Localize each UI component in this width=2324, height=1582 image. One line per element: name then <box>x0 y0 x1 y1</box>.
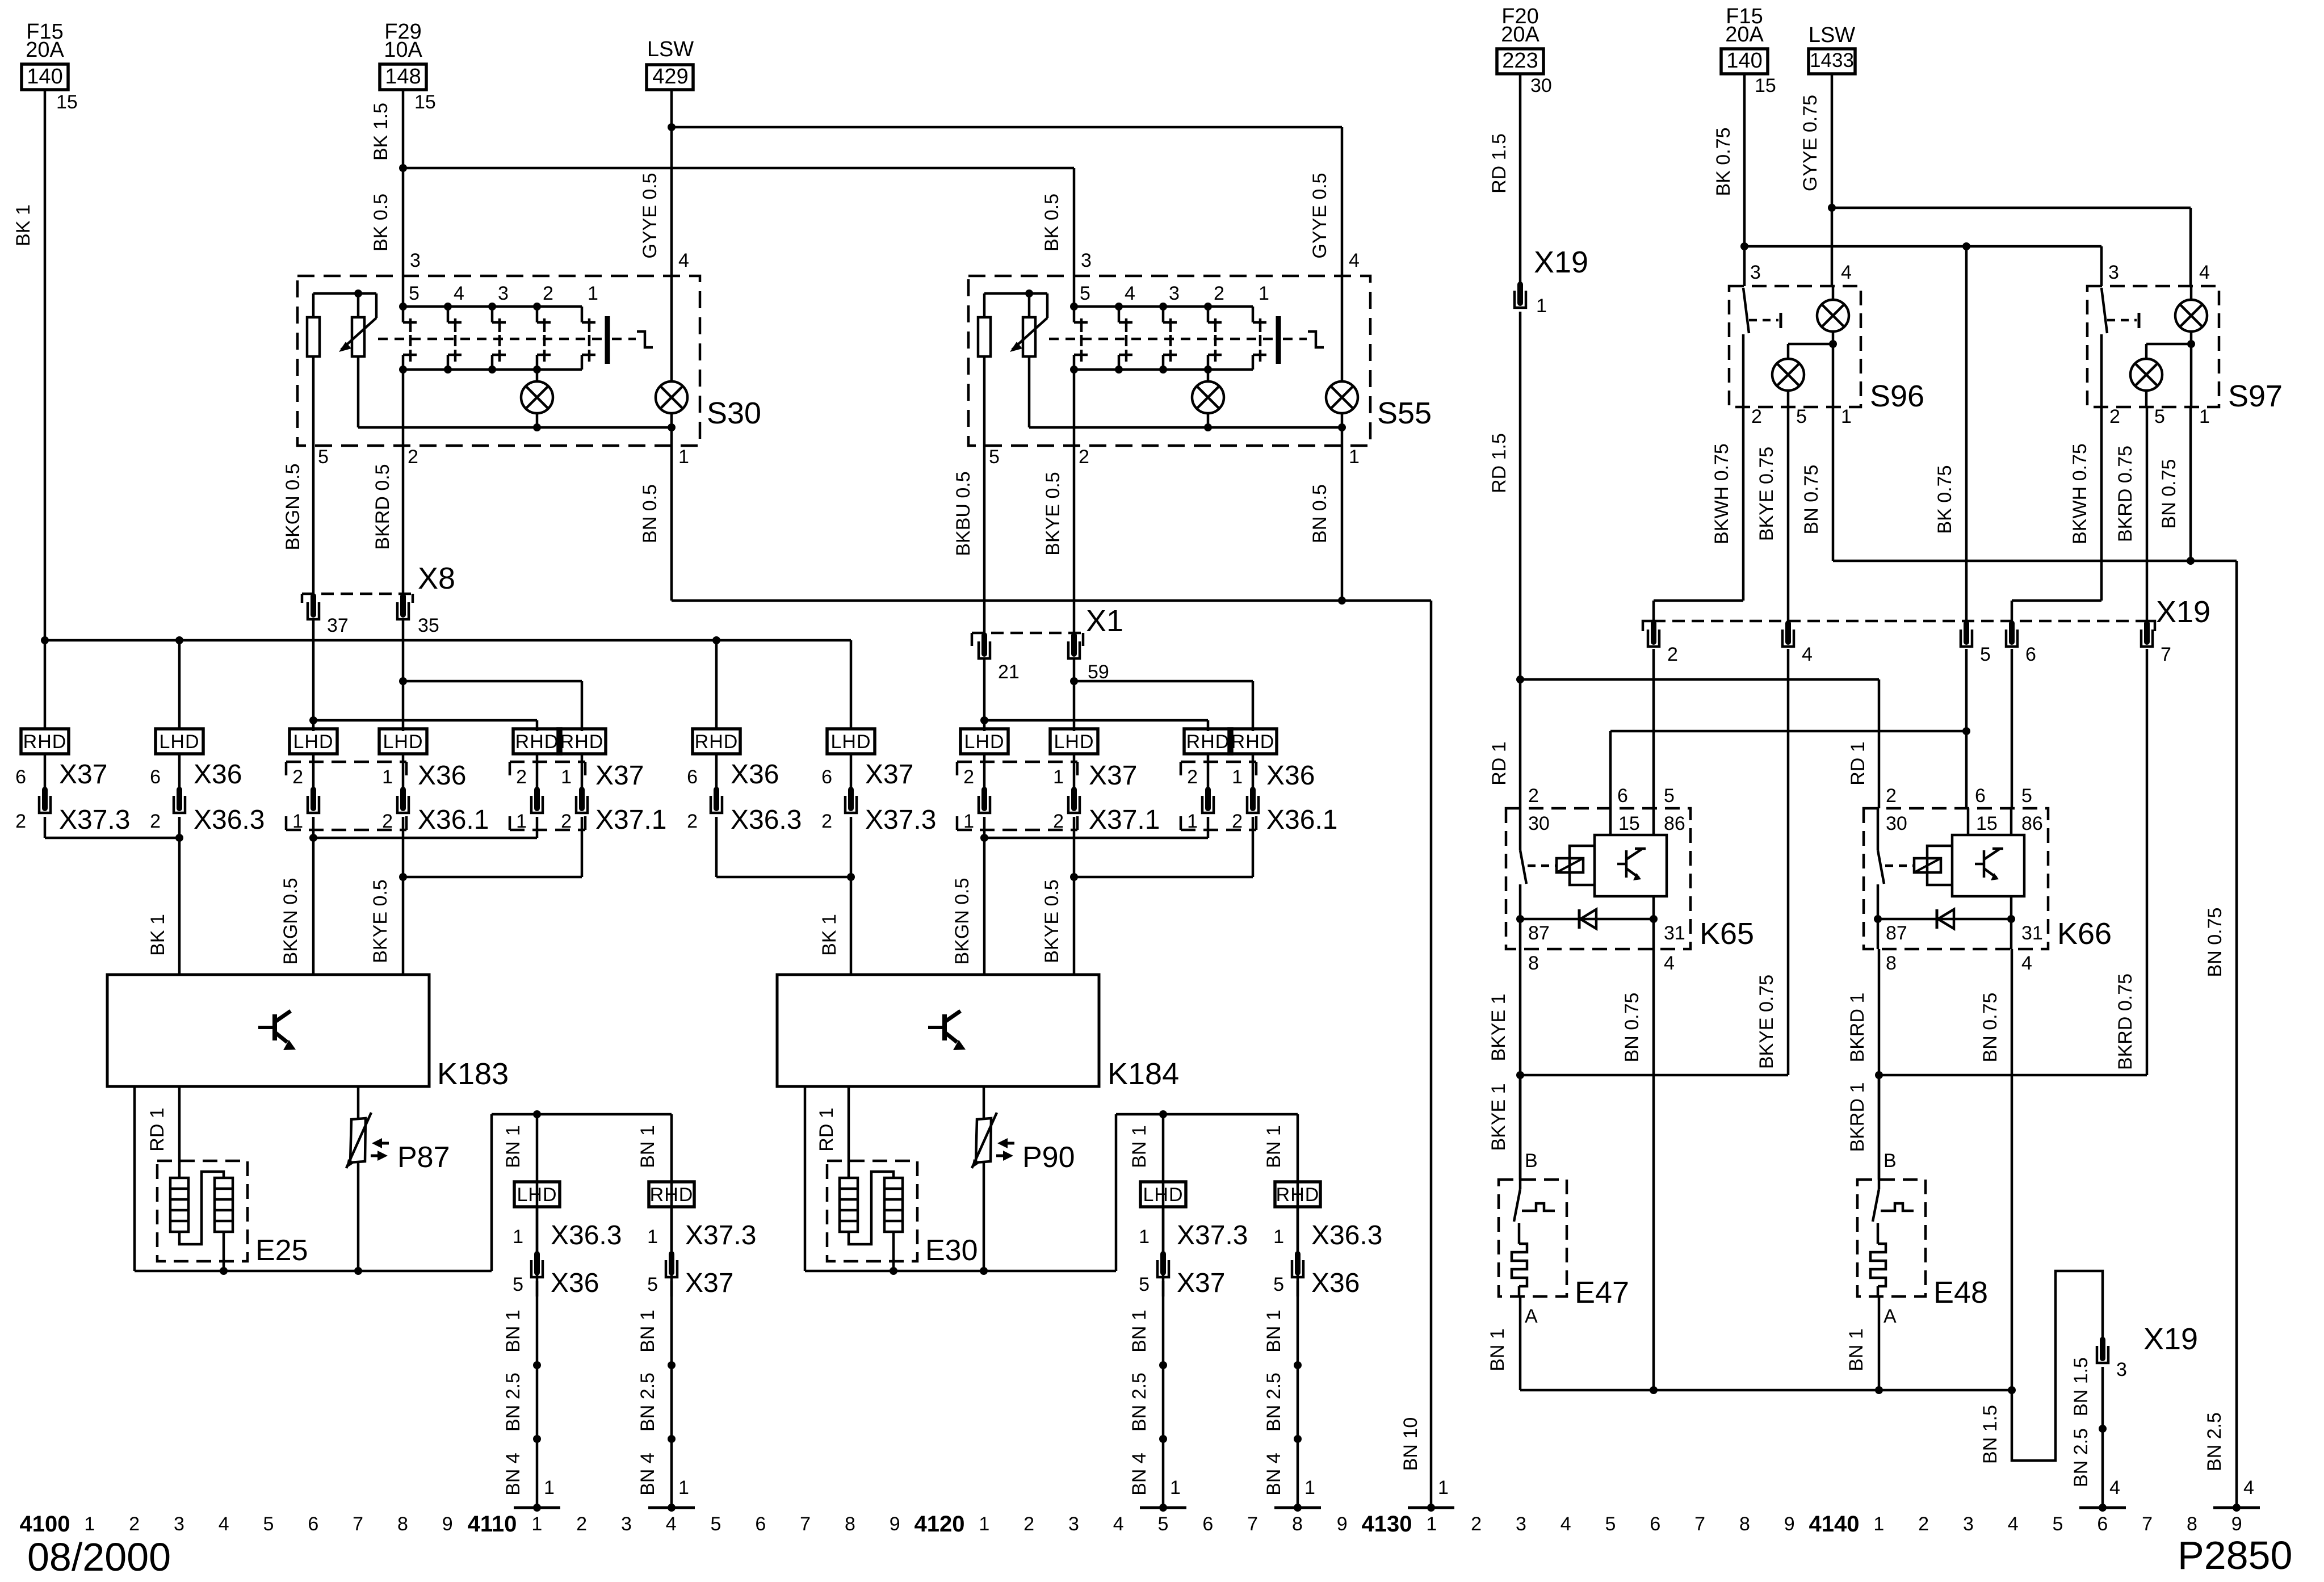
K65 switch contact 30-87 <box>1519 808 1522 850</box>
ground point X36 <box>514 1507 560 1509</box>
svg-text:3: 3 <box>1963 1513 1974 1535</box>
ground point X37 <box>648 1507 695 1509</box>
svg-text:RHD: RHD <box>560 731 604 753</box>
svg-text:1: 1 <box>1873 1513 1884 1535</box>
svg-text:20A: 20A <box>26 38 64 62</box>
svg-text:BN 1: BN 1 <box>502 1310 524 1353</box>
ground connector X36.3/X36 (LHD) <box>514 1182 560 1207</box>
wire BK 1.5 from F29 <box>402 90 405 168</box>
svg-text:1: 1 <box>1232 766 1243 788</box>
svg-text:BK 1.5: BK 1.5 <box>370 103 392 161</box>
svg-text:X36: X36 <box>1311 1268 1360 1298</box>
S96 indicator lamp A <box>1832 286 1835 300</box>
svg-text:BK 0.75: BK 0.75 <box>1934 465 1956 534</box>
svg-text:3: 3 <box>498 283 509 304</box>
connector X37 RHD (single, from F15) <box>21 729 69 754</box>
svg-text:BN 2.5: BN 2.5 <box>637 1373 658 1432</box>
svg-text:BN 1: BN 1 <box>1263 1310 1285 1353</box>
svg-text:LHD: LHD <box>830 731 871 753</box>
svg-text:6: 6 <box>2097 1513 2108 1535</box>
svg-text:X37: X37 <box>1177 1268 1225 1298</box>
svg-text:RHD: RHD <box>23 731 67 753</box>
svg-text:2: 2 <box>561 811 572 832</box>
connector pair X36/X36.1 LHD (BKGN, BKRD wires) <box>286 761 406 763</box>
svg-text:1: 1 <box>1187 811 1198 832</box>
svg-text:1: 1 <box>292 811 303 832</box>
svg-text:148: 148 <box>385 65 421 89</box>
svg-text:1: 1 <box>382 766 393 788</box>
wire BKRD 0.5 from S30 pin 2 <box>402 446 405 596</box>
svg-text:2: 2 <box>1471 1513 1482 1535</box>
wire BKRD 1 from K66 pin 8 <box>1878 949 1881 1180</box>
svg-text:BN 0.5: BN 0.5 <box>639 484 661 543</box>
svg-text:BN 0.5: BN 0.5 <box>1309 484 1331 543</box>
svg-text:BN 2.5: BN 2.5 <box>2070 1428 2092 1487</box>
svg-text:RHD: RHD <box>515 731 559 753</box>
svg-text:9: 9 <box>1784 1513 1795 1535</box>
svg-text:4140: 4140 <box>1809 1512 1860 1537</box>
svg-text:BN 4: BN 4 <box>1129 1453 1150 1496</box>
svg-text:S96: S96 <box>1870 379 1924 413</box>
svg-text:A: A <box>1525 1306 1538 1327</box>
wire GYYE 0.75 from LSW <box>1831 74 1834 208</box>
svg-text:31: 31 <box>1664 922 1685 944</box>
wire BN 0.5 from S55 pin 1 <box>1341 446 1344 601</box>
svg-text:BN 4: BN 4 <box>637 1453 658 1496</box>
svg-text:BKWH 0.75: BKWH 0.75 <box>1711 443 1732 544</box>
svg-text:S30: S30 <box>707 396 761 430</box>
svg-text:3: 3 <box>1068 1513 1079 1535</box>
svg-text:5: 5 <box>1139 1274 1150 1295</box>
S30 illumination resistor (fixed) <box>312 293 315 317</box>
X19 pin 7 <box>2144 623 2150 642</box>
svg-text:6: 6 <box>308 1513 318 1535</box>
wire BN 0.75 from S96 pin 1 <box>1832 407 1835 561</box>
svg-text:E47: E47 <box>1575 1275 1629 1310</box>
svg-text:4: 4 <box>1664 952 1675 974</box>
switch S97 enclosure <box>2087 286 2219 407</box>
svg-text:59: 59 <box>1088 661 1109 683</box>
X8 pin 35 <box>400 596 406 615</box>
svg-text:4: 4 <box>1349 250 1360 271</box>
wire from K184 to P90 <box>983 1086 985 1271</box>
svg-text:2: 2 <box>1023 1513 1034 1535</box>
E47 thermal switch <box>1519 1075 1522 1180</box>
switch S96 enclosure <box>1729 286 1861 407</box>
svg-text:6: 6 <box>687 766 698 788</box>
svg-text:X36.1: X36.1 <box>418 805 489 835</box>
svg-text:BN 0.75: BN 0.75 <box>2204 908 2226 977</box>
X19 pin 5 <box>1964 623 1969 642</box>
svg-text:BN 1: BN 1 <box>1487 1328 1508 1371</box>
svg-text:1: 1 <box>1304 1477 1315 1499</box>
wire BK 0.5 to S30 pin 3 <box>402 168 405 276</box>
GYYE split to S96 and S97 pin 4 <box>1828 204 1836 212</box>
svg-text:P87: P87 <box>397 1141 450 1174</box>
S55 rotary contact bank <box>1074 305 1253 308</box>
ground connector X37.3/X37 (LHD) <box>1140 1182 1186 1207</box>
wire BKGN 0.5 to K183 <box>312 838 315 975</box>
svg-text:4: 4 <box>2021 952 2032 974</box>
node BKGN loop A <box>309 716 317 724</box>
svg-text:X36: X36 <box>731 759 779 790</box>
svg-text:X36.3: X36.3 <box>1311 1220 1382 1251</box>
svg-text:3: 3 <box>1750 262 1761 283</box>
K66 coil <box>1885 865 1914 867</box>
wire RD 1 node to relays <box>1516 675 1524 683</box>
heated washer jet E47 enclosure <box>1499 1180 1567 1296</box>
svg-text:E48: E48 <box>1933 1275 1988 1310</box>
svg-text:7: 7 <box>353 1513 363 1535</box>
wire RD 1.5 from F20 <box>1519 74 1522 284</box>
S55 GYYE internal wire to lamp <box>1341 276 1344 381</box>
svg-text:30: 30 <box>1528 813 1550 834</box>
supply bus from F15 to connector row <box>45 639 851 642</box>
svg-text:2: 2 <box>15 811 26 832</box>
svg-text:BN 0.75: BN 0.75 <box>2158 459 2180 529</box>
svg-text:4: 4 <box>1802 644 1813 665</box>
svg-text:X37: X37 <box>59 759 107 790</box>
K183 internal transistor <box>258 1026 275 1029</box>
svg-text:6: 6 <box>821 766 832 788</box>
svg-text:BKYE 0.5: BKYE 0.5 <box>1042 472 1064 555</box>
svg-text:5: 5 <box>2021 785 2032 807</box>
svg-text:BKYE 0.5: BKYE 0.5 <box>1041 879 1063 963</box>
S97 indicator lamp B <box>2146 343 2191 346</box>
E48 heater element <box>1877 1223 1880 1244</box>
svg-text:1: 1 <box>678 1477 689 1499</box>
wire BK 1 to K183 <box>178 838 181 975</box>
svg-text:LHD: LHD <box>1054 731 1094 753</box>
wire BKYE 1 from K65 pin 8 <box>1519 949 1522 1180</box>
wire RD 1 from K183 to E25 <box>178 1086 181 1178</box>
svg-text:1: 1 <box>1053 766 1064 788</box>
svg-text:3: 3 <box>2108 262 2119 283</box>
S55 dimmer rheostat (variable) <box>984 292 1047 295</box>
svg-text:P2850: P2850 <box>2178 1533 2292 1577</box>
svg-text:B: B <box>1525 1150 1538 1172</box>
svg-text:5: 5 <box>409 283 420 304</box>
svg-text:BN 2.5: BN 2.5 <box>1263 1373 1285 1432</box>
ground point BN 10 <box>1408 1507 1454 1509</box>
svg-text:87: 87 <box>1528 922 1550 944</box>
svg-text:X36: X36 <box>418 761 466 791</box>
svg-text:2: 2 <box>2109 406 2120 427</box>
svg-text:4: 4 <box>454 283 464 304</box>
E48 thermal switch <box>1878 1075 1881 1180</box>
K66 transistor driver <box>1952 835 2024 896</box>
svg-text:3: 3 <box>174 1513 184 1535</box>
svg-text:S97: S97 <box>2228 379 2283 413</box>
svg-text:RHD: RHD <box>1186 731 1230 753</box>
svg-text:30: 30 <box>1530 75 1552 96</box>
svg-text:1: 1 <box>1349 446 1360 468</box>
node: F29 feed split to S30 pin3 and S55 pin3 <box>399 164 407 172</box>
wire RD 1 from K184 to E30 <box>848 1086 850 1178</box>
svg-text:1: 1 <box>544 1477 555 1499</box>
ground point right BN <box>2213 1507 2260 1509</box>
wire BKBU 0.5 from S55 pin 5 <box>983 446 986 635</box>
connector X36 LHD (single) <box>156 729 203 754</box>
wire BK 0.75 from F15 <box>1743 74 1746 246</box>
svg-text:4: 4 <box>219 1513 229 1535</box>
svg-text:BKYE 0.75: BKYE 0.75 <box>1756 447 1777 541</box>
svg-text:8: 8 <box>1292 1513 1303 1535</box>
svg-text:7: 7 <box>1694 1513 1705 1535</box>
K66 suppression diode <box>1878 918 2011 921</box>
S30 internal bottom wire <box>358 426 672 429</box>
svg-text:X37: X37 <box>1089 761 1137 791</box>
svg-text:140: 140 <box>1726 49 1762 73</box>
svg-text:4: 4 <box>2199 262 2210 283</box>
switch unit S55 enclosure <box>968 276 1370 446</box>
svg-text:BK 1: BK 1 <box>147 914 169 956</box>
svg-text:GYYE 0.5: GYYE 0.5 <box>639 173 661 258</box>
svg-text:3: 3 <box>621 1513 632 1535</box>
svg-text:X36: X36 <box>1266 761 1315 791</box>
svg-text:2: 2 <box>1751 406 1762 427</box>
svg-text:K184: K184 <box>1108 1057 1179 1091</box>
svg-text:5: 5 <box>2053 1513 2063 1535</box>
svg-text:E25: E25 <box>255 1234 308 1267</box>
svg-text:LHD: LHD <box>159 731 199 753</box>
S30 pin 3-2 wire through contact bank <box>402 276 405 307</box>
svg-text:6: 6 <box>15 766 26 788</box>
svg-text:2: 2 <box>1667 644 1678 665</box>
svg-text:21: 21 <box>998 661 1020 683</box>
svg-text:X37.3: X37.3 <box>59 805 130 835</box>
svg-text:X37.3: X37.3 <box>685 1220 756 1251</box>
svg-text:8: 8 <box>845 1513 855 1535</box>
photo sensor P87 <box>350 1118 366 1163</box>
svg-text:BN 1.5: BN 1.5 <box>1979 1405 2001 1464</box>
svg-text:08/2000: 08/2000 <box>27 1535 171 1579</box>
svg-text:20A: 20A <box>1725 23 1764 47</box>
svg-text:RHD: RHD <box>1276 1184 1320 1206</box>
X1 pin 59 <box>1071 635 1077 654</box>
svg-text:4: 4 <box>666 1513 677 1535</box>
S97 indicator lamp A <box>2190 286 2193 300</box>
svg-text:2: 2 <box>1079 446 1089 468</box>
svg-text:31: 31 <box>2021 922 2043 944</box>
svg-text:X19: X19 <box>2143 1322 2198 1356</box>
svg-text:4: 4 <box>1560 1513 1571 1535</box>
svg-text:1: 1 <box>531 1513 542 1535</box>
svg-text:4110: 4110 <box>468 1512 517 1537</box>
K65 coil <box>1528 865 1556 867</box>
svg-text:7: 7 <box>1247 1513 1258 1535</box>
S30 indicator lamp 2 <box>656 381 687 413</box>
svg-text:X19: X19 <box>1534 245 1588 279</box>
wire BKWH 0.75 from S97 pin 2 <box>2100 407 2103 601</box>
wire BK 1 to K184 <box>850 877 853 975</box>
svg-text:4: 4 <box>2243 1477 2254 1499</box>
svg-text:1: 1 <box>1139 1226 1150 1248</box>
svg-text:9: 9 <box>890 1513 900 1535</box>
svg-text:K65: K65 <box>1700 917 1754 951</box>
svg-text:X19: X19 <box>2156 595 2210 629</box>
ground point X19-3 <box>2079 1507 2126 1509</box>
svg-text:LHD: LHD <box>383 731 423 753</box>
svg-text:BN 1: BN 1 <box>1129 1310 1150 1353</box>
svg-text:2: 2 <box>963 766 974 788</box>
svg-text:9: 9 <box>2231 1513 2242 1535</box>
svg-text:2: 2 <box>1528 785 1539 807</box>
svg-text:RHD: RHD <box>695 731 739 753</box>
S30 dimmer rheostat (variable) <box>313 292 376 295</box>
K183 ground rail <box>135 1270 492 1273</box>
svg-text:3: 3 <box>1516 1513 1526 1535</box>
svg-text:2: 2 <box>1187 766 1198 788</box>
svg-text:BKYE 0.5: BKYE 0.5 <box>370 879 391 963</box>
svg-text:BKYE 0.75: BKYE 0.75 <box>1756 975 1777 1069</box>
svg-text:X37.1: X37.1 <box>595 805 666 835</box>
svg-text:BKRD 1: BKRD 1 <box>1847 993 1868 1063</box>
svg-text:LHD: LHD <box>293 731 333 753</box>
connector X36 RHD (single right) <box>693 729 740 754</box>
wire to K65 pin 86 <box>1652 649 1655 808</box>
svg-text:LHD: LHD <box>517 1184 557 1206</box>
photo sensor P90 <box>976 1118 991 1163</box>
wire GYYE 0.5 to S30 pin 4 <box>670 127 673 276</box>
S30 indicator lamp 1 <box>536 370 539 381</box>
svg-text:9: 9 <box>1337 1513 1348 1535</box>
svg-text:BN 0.75: BN 0.75 <box>1801 465 1822 535</box>
svg-text:1: 1 <box>1259 283 1269 304</box>
svg-text:15: 15 <box>1976 813 1998 834</box>
svg-text:X37.1: X37.1 <box>1089 805 1160 835</box>
wire BN 10 down to ground <box>1430 601 1433 1508</box>
svg-text:BK 0.75: BK 0.75 <box>1713 128 1734 196</box>
svg-text:RD 1: RD 1 <box>1847 741 1869 785</box>
svg-text:BN 1: BN 1 <box>1129 1125 1150 1168</box>
heater control module K183 <box>107 975 429 1086</box>
BN 1 ground rail right <box>1520 1389 2012 1392</box>
svg-text:2: 2 <box>150 811 161 832</box>
S30 actuator bar <box>605 316 610 364</box>
svg-text:15: 15 <box>56 91 78 113</box>
svg-text:2: 2 <box>821 811 832 832</box>
X19 pin 6 <box>2009 623 2015 642</box>
svg-text:223: 223 <box>1502 49 1538 73</box>
svg-text:8: 8 <box>397 1513 408 1535</box>
svg-text:BK 0.5: BK 0.5 <box>370 194 392 251</box>
svg-text:BN 4: BN 4 <box>1263 1453 1285 1496</box>
wire BK 1 from F15 <box>44 90 47 729</box>
svg-text:BKYE 1: BKYE 1 <box>1488 993 1509 1061</box>
svg-text:5: 5 <box>1158 1513 1169 1535</box>
svg-text:X8: X8 <box>418 561 455 595</box>
heater element E30 <box>827 1161 917 1261</box>
svg-text:8: 8 <box>1528 952 1539 974</box>
svg-text:A: A <box>1883 1306 1897 1327</box>
wire BN 0.5 from S30 pin 1 <box>670 446 673 601</box>
BK split to S96 and S97 pin 3 <box>1740 242 1748 250</box>
K184 ground rail <box>805 1270 1116 1273</box>
svg-text:6: 6 <box>2025 644 2036 665</box>
svg-text:X36.3: X36.3 <box>551 1220 622 1251</box>
ground point X37 <box>1140 1507 1186 1509</box>
connector pair X37/X37.1 LHD (right circuit) <box>957 761 1077 763</box>
ground connector X37.3/X37 (RHD) <box>649 1182 694 1207</box>
svg-text:X37: X37 <box>685 1268 733 1298</box>
svg-text:15: 15 <box>1755 75 1776 96</box>
svg-text:BKYE 1: BKYE 1 <box>1488 1083 1509 1151</box>
svg-text:LSW: LSW <box>1809 23 1855 47</box>
svg-text:P90: P90 <box>1022 1141 1075 1174</box>
svg-text:BKWH 0.75: BKWH 0.75 <box>2069 443 2091 544</box>
wire BKYE 0.75 from X19 pin 4 joins BKYE 1 <box>1787 649 1790 1075</box>
K183 output to ground rail <box>133 1086 136 1271</box>
svg-text:GYYE 0.75: GYYE 0.75 <box>1799 95 1821 191</box>
svg-text:5: 5 <box>263 1513 274 1535</box>
svg-text:BN 1: BN 1 <box>637 1310 658 1353</box>
svg-text:RD 1: RD 1 <box>816 1107 837 1151</box>
K184 internal transistor <box>928 1026 945 1029</box>
connector pair X36/X36.1 RHD (right circuit) <box>1181 761 1256 763</box>
heated washer jet E48 enclosure <box>1857 1180 1926 1296</box>
svg-text:2: 2 <box>129 1513 140 1535</box>
svg-text:RD 1: RD 1 <box>1488 741 1510 785</box>
svg-text:BKRD 0.75: BKRD 0.75 <box>2115 973 2136 1070</box>
svg-text:1: 1 <box>1426 1513 1437 1535</box>
svg-text:5: 5 <box>711 1513 721 1535</box>
svg-text:BN 1: BN 1 <box>637 1125 658 1168</box>
svg-text:35: 35 <box>418 615 439 636</box>
relay K65 enclosure <box>1506 808 1690 949</box>
wire BK 0.5 to S55 pin 3 <box>1073 168 1076 276</box>
wire BKYE 0.5 from S55 pin 2 <box>1073 446 1076 635</box>
svg-text:140: 140 <box>27 65 62 89</box>
svg-text:8: 8 <box>1886 952 1897 974</box>
S30 GYYE internal wire to lamp <box>670 276 673 381</box>
wire BK 0.75 branch to X19 pin 5 <box>1965 246 1968 623</box>
E47 heater element <box>1518 1223 1521 1244</box>
svg-text:2: 2 <box>543 283 553 304</box>
wire BN 0.75 from K65 pin 4 <box>1652 949 1655 1390</box>
svg-text:5: 5 <box>1796 406 1807 427</box>
svg-text:8: 8 <box>2187 1513 2197 1535</box>
svg-text:1: 1 <box>1438 1477 1449 1499</box>
svg-text:1: 1 <box>84 1513 95 1535</box>
svg-text:7: 7 <box>2161 644 2171 665</box>
wire BKYE 0.5 to K184 <box>1073 877 1076 975</box>
S55 pin 3-2 wire through contact bank <box>1073 276 1076 307</box>
wire GYYE 0.5 from LSW <box>670 90 673 127</box>
svg-text:GYYE 0.5: GYYE 0.5 <box>1309 173 1331 258</box>
wire to K66 pin 86 <box>2011 649 2013 808</box>
wire BN 0.75 from S97 pin 1 <box>2189 407 2192 561</box>
svg-text:BN 0.75: BN 0.75 <box>1621 993 1643 1063</box>
svg-text:7: 7 <box>2142 1513 2153 1535</box>
wire BK 0.75 to K65/K66 pin 15 <box>1965 649 1968 808</box>
svg-text:30: 30 <box>1886 813 1907 834</box>
wire GYYE 0.5 to S55 pin 4 <box>1341 127 1344 276</box>
svg-text:6: 6 <box>1202 1513 1213 1535</box>
S96 indicator lamp B <box>1788 343 1833 346</box>
svg-text:1: 1 <box>1273 1226 1284 1248</box>
svg-text:15: 15 <box>1618 813 1640 834</box>
svg-text:BN 1.5: BN 1.5 <box>2070 1357 2092 1416</box>
svg-text:2: 2 <box>1918 1513 1929 1535</box>
svg-text:2: 2 <box>1886 785 1897 807</box>
svg-text:1: 1 <box>1170 1477 1181 1499</box>
svg-text:1: 1 <box>516 811 527 832</box>
X19 pin 4 <box>1785 623 1791 642</box>
svg-text:2: 2 <box>1214 283 1224 304</box>
svg-text:BN 4: BN 4 <box>502 1453 524 1496</box>
svg-text:3: 3 <box>1081 250 1092 271</box>
